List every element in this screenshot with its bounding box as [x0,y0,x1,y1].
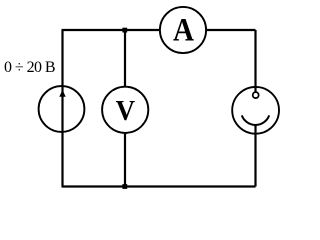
lamp tip contact small circle [253,92,259,98]
wire middle vertical (voltmeter branch) [124,30,126,187]
lamp filament arc [242,115,269,125]
wire left vertical (source branch) [61,30,63,187]
source G1 arrowhead [59,90,65,97]
svg-text:A: A [173,11,194,48]
svg-text:0 ÷ 20 В: 0 ÷ 20 В [4,59,55,76]
lamp top lead stub [254,86,256,93]
svg-text:V: V [116,95,135,127]
voltmeter V [102,87,148,133]
lamp bottom lead stub [254,125,256,135]
wire top horizontal (source to lamp branch, through ammeter) [62,29,256,31]
node top junction (voltmeter branch / top wire) [122,28,127,33]
ammeter A [160,7,206,53]
wire right vertical (lamp branch) [254,30,256,187]
source G1 (adjustable 0-20 V source) [39,86,85,132]
lamp EL1 [232,86,279,135]
source G1 arrow shaft [61,86,63,132]
wire bottom horizontal [62,185,256,187]
node bottom junction (voltmeter branch / bottom wire) [122,184,127,189]
